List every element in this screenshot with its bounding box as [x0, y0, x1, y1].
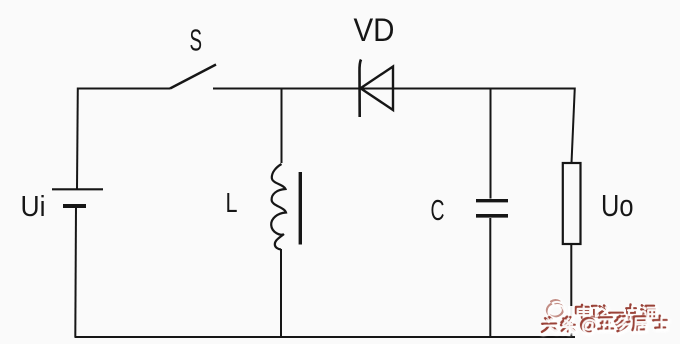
svg-text:C: C [431, 195, 445, 227]
watermark white erase patch over right wire [568, 306, 574, 333]
svg-text:L: L [226, 187, 238, 218]
inductor L core bar [299, 172, 302, 245]
wire inductor branch upper [281, 89, 283, 164]
wire right vertical lower [570, 244, 572, 337]
watermark [542, 300, 669, 334]
diode VD bar [359, 60, 361, 118]
svg-text:Uo: Uo [601, 188, 634, 223]
svg-text:Ui: Ui [21, 191, 46, 223]
inductor L coil [271, 164, 286, 250]
wire right vertical upper [572, 88, 575, 164]
wire top right segment [213, 88, 575, 90]
diode VD triangle [361, 67, 394, 111]
watermark line1 电路一点通 [576, 305, 658, 321]
watermark line2 头条@五多居士 [542, 315, 669, 334]
svg-text:S: S [190, 23, 203, 58]
wire left vertical upper [76, 88, 79, 190]
wire capacitor branch upper [490, 89, 492, 199]
wire top left segment [77, 88, 170, 90]
resistor load Uo [563, 163, 581, 244]
wire bottom [75, 336, 576, 338]
battery Ui plate long [52, 188, 103, 190]
capacitor C plate bottom [476, 214, 508, 218]
wire inductor branch lower [280, 249, 282, 337]
wire capacitor branch lower [489, 218, 491, 337]
switch S [170, 65, 216, 89]
battery Ui plate short [63, 204, 86, 208]
wire left vertical lower [74, 206, 77, 337]
capacitor C plate top [476, 199, 508, 202]
watermark icon [547, 300, 565, 321]
svg-text:VD: VD [354, 12, 395, 48]
